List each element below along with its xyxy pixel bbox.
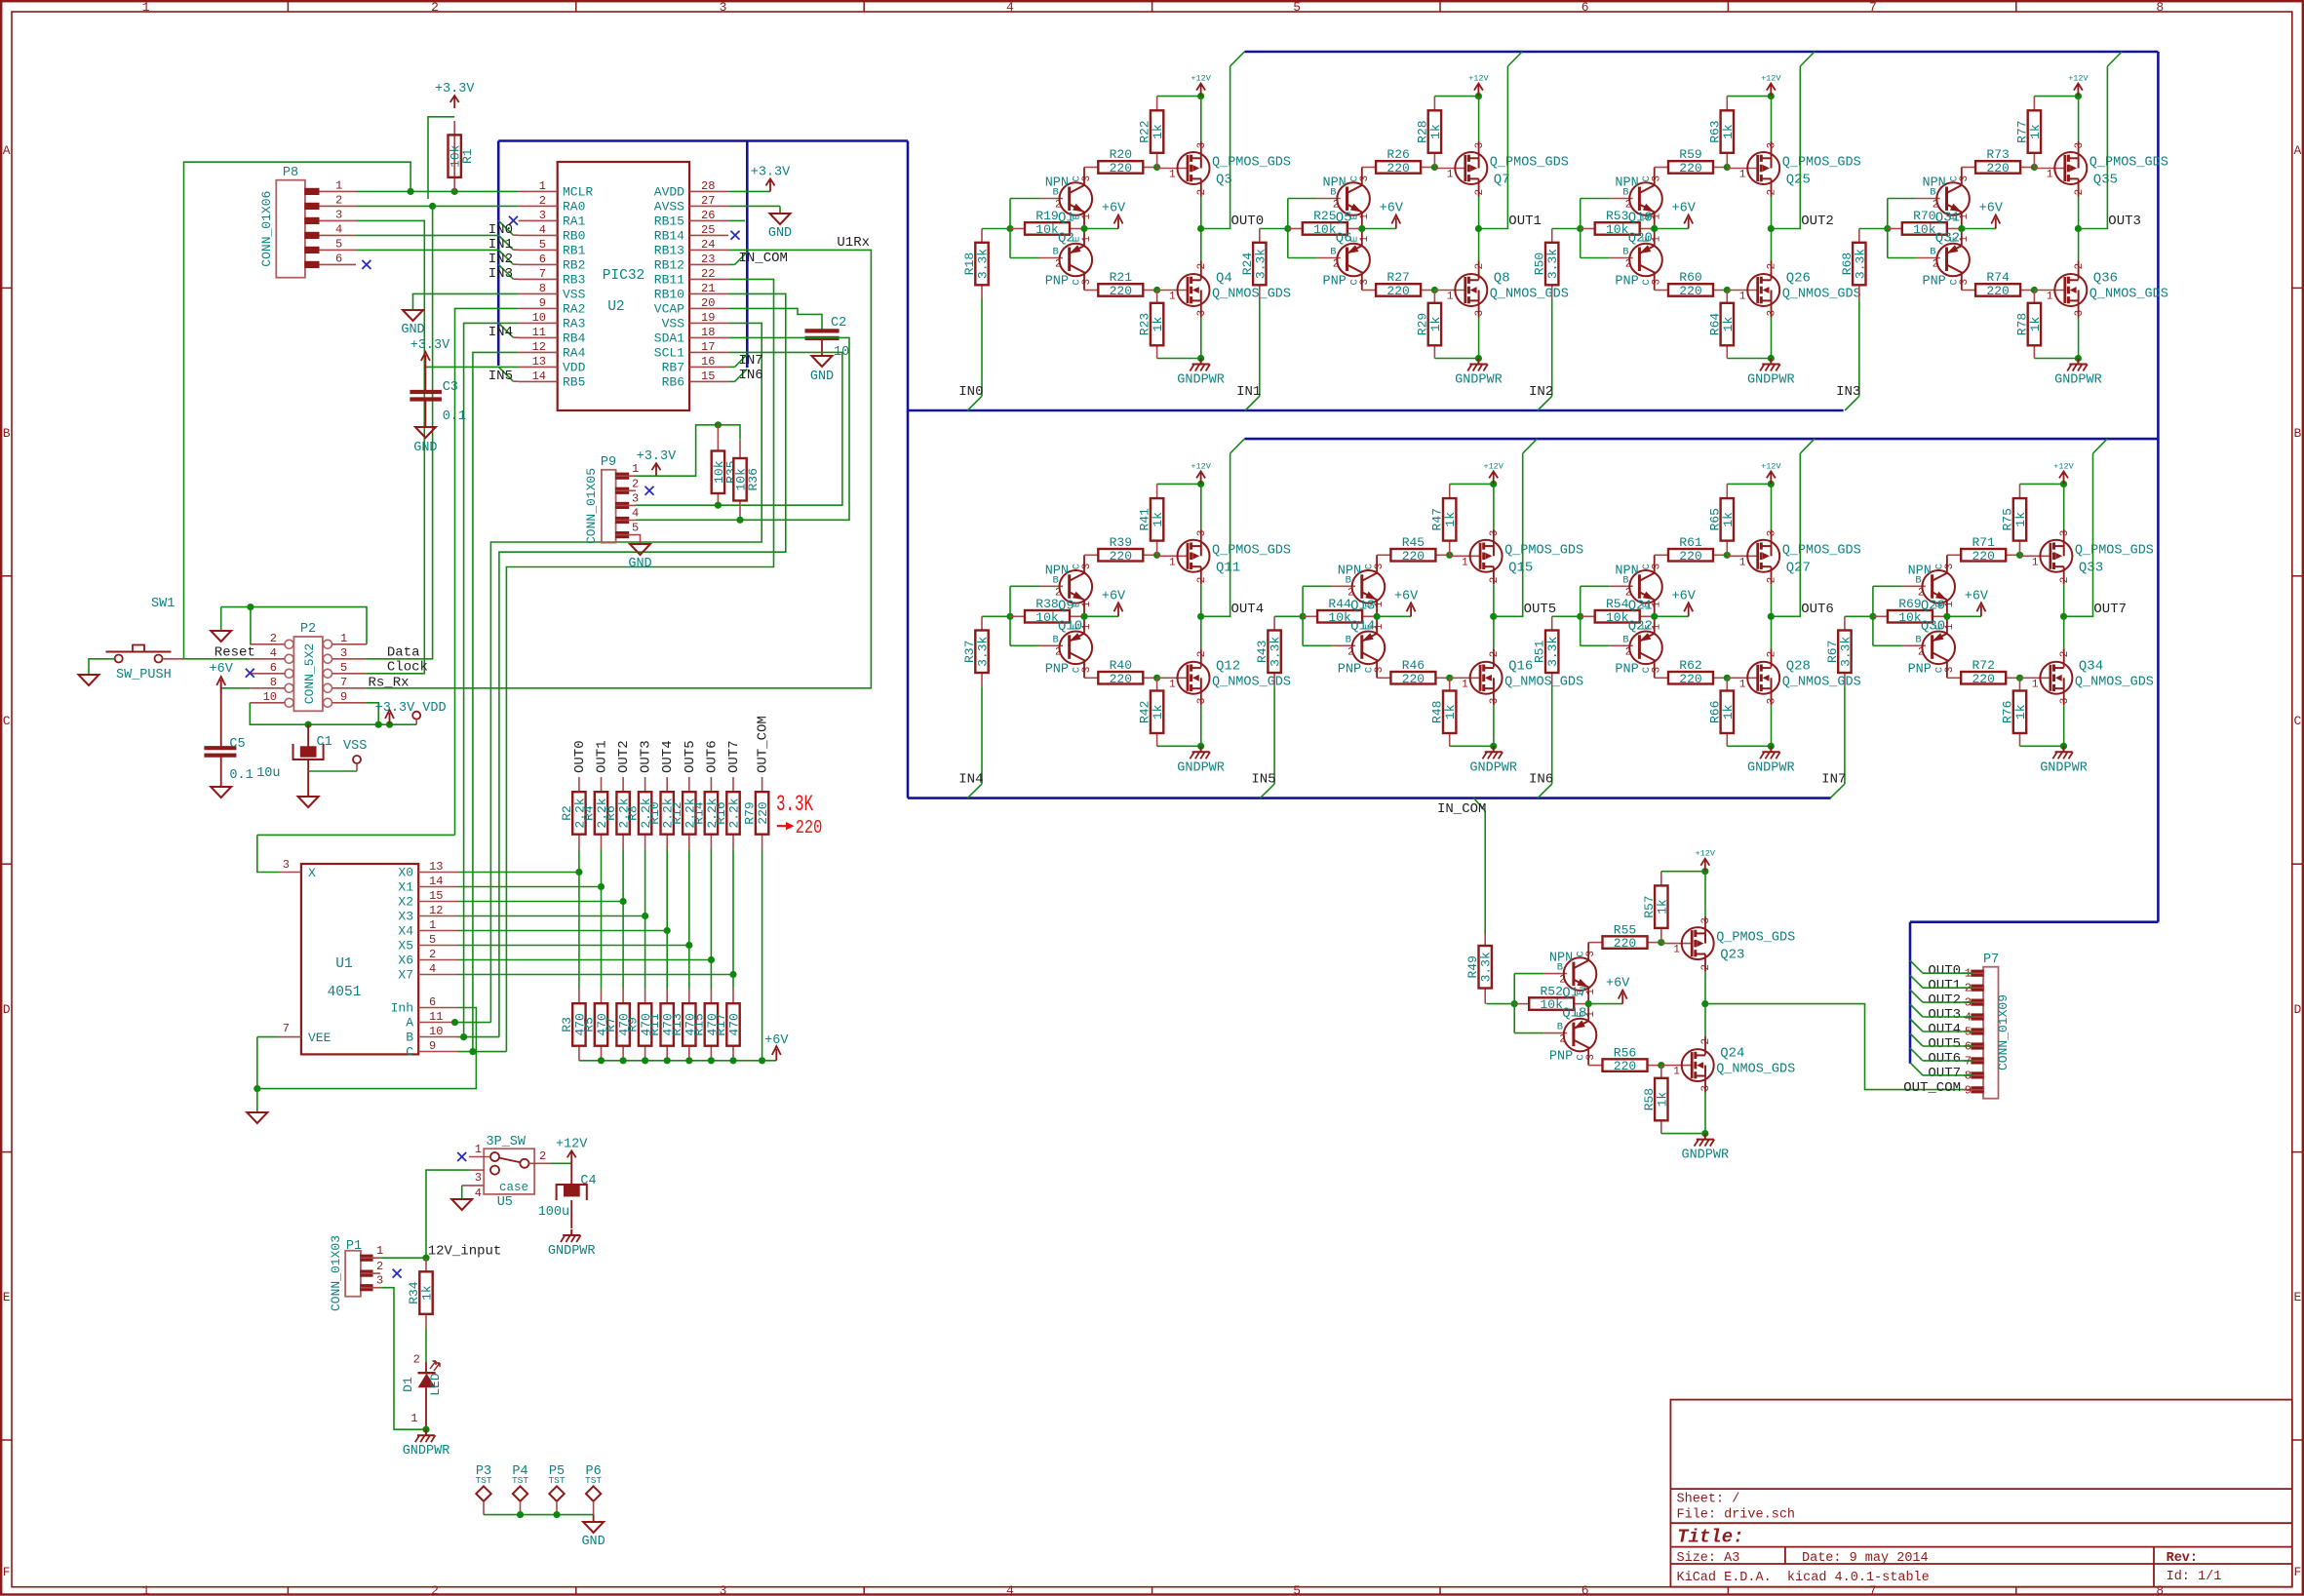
svg-text:IN2: IN2 <box>488 252 513 267</box>
svg-text:R71: R71 <box>1972 535 1995 550</box>
svg-text:Q12: Q12 <box>1216 658 1240 674</box>
junction output OUT7 <box>2060 613 2067 620</box>
svg-text:2: 2 <box>429 948 436 961</box>
svg-text:RA0: RA0 <box>563 199 585 214</box>
svg-text:Rev:: Rev: <box>2167 1551 2198 1566</box>
svg-text:PNP: PNP <box>1322 275 1346 290</box>
svg-text:VSS: VSS <box>343 739 367 754</box>
svg-text:220: 220 <box>1679 672 1701 686</box>
svg-text:2: 2 <box>1767 651 1778 658</box>
svg-text:X7: X7 <box>398 968 413 983</box>
svg-text:CONN_01X06: CONN_01X06 <box>259 191 274 267</box>
svg-text:1: 1 <box>1081 623 1093 630</box>
wire VSS pin8 to GND <box>413 293 519 309</box>
resistor R78 1k pull-down <box>2033 291 2035 303</box>
resistor R22 1k pull-up <box>1156 97 1158 111</box>
svg-text:R78: R78 <box>2014 313 2029 335</box>
svg-text:TST: TST <box>585 1475 602 1486</box>
svg-text:C1: C1 <box>317 735 332 750</box>
svg-text:X2: X2 <box>398 895 413 910</box>
svg-text:OUT6: OUT6 <box>1801 602 1834 617</box>
svg-text:R11: R11 <box>647 1013 662 1036</box>
svg-text:1: 1 <box>1739 679 1746 690</box>
wire Q6 collector to R27 <box>1361 272 1363 291</box>
svg-text:2: 2 <box>1055 646 1062 658</box>
svg-text:+12V: +12V <box>1191 461 1211 471</box>
wire Q30 collector to R72 <box>1946 659 1948 678</box>
resistor R70 10k <box>1888 228 1902 230</box>
wire +12V rail <box>1157 96 1201 97</box>
wire OUT5 riser to bus <box>1494 453 1523 616</box>
no-connect P8 pin6 <box>362 260 371 269</box>
svg-text:RB14: RB14 <box>654 228 684 243</box>
svg-text:IN4: IN4 <box>488 325 513 340</box>
connector P8 CONN_01X06 <box>276 180 305 278</box>
svg-text:3.3k: 3.3k <box>1838 637 1853 667</box>
resistor R45 220 <box>1377 554 1390 556</box>
svg-text:2: 2 <box>1055 259 1062 271</box>
svg-text:R46: R46 <box>1402 658 1425 673</box>
svg-text:Q32: Q32 <box>1935 231 1960 247</box>
svg-text:3.3k: 3.3k <box>976 249 991 279</box>
svg-text:1k: 1k <box>1721 317 1736 332</box>
P2 pin 3 <box>324 654 332 663</box>
svg-text:OUT6: OUT6 <box>1928 1051 1961 1067</box>
svg-text:1k: 1k <box>1151 124 1165 139</box>
P1 pin 2 <box>361 1270 372 1276</box>
svg-text:X6: X6 <box>398 954 413 968</box>
svg-text:Q30: Q30 <box>1921 618 1945 634</box>
svg-text:3: 3 <box>340 646 347 660</box>
svg-text:GNDPWR: GNDPWR <box>1455 373 1503 388</box>
junction D1 cathode <box>422 1426 429 1433</box>
svg-text:1: 1 <box>1652 623 1663 630</box>
mosfet Q33 Q_PMOS_GDS <box>2020 555 2050 557</box>
svg-text:+12V: +12V <box>1191 74 1211 84</box>
P8 pin 5 <box>305 249 356 251</box>
svg-text:IN1: IN1 <box>1236 384 1261 400</box>
svg-text:3: 3 <box>1700 917 1712 924</box>
connector P2 CONN_5X2 <box>293 637 323 711</box>
wire Q15 drain to output <box>1493 566 1495 584</box>
wire Q26 source to GNDPWR <box>1771 300 1773 317</box>
svg-text:R59: R59 <box>1679 147 1701 162</box>
bus IN (middle vertical x=931) <box>907 141 910 798</box>
ground GNDPWR <box>1770 746 1772 752</box>
svg-text:2: 2 <box>413 1352 420 1366</box>
svg-text:Q9: Q9 <box>1058 598 1074 613</box>
wire IN5 riser to bus <box>1273 686 1275 784</box>
svg-text:Q_PMOS_GDS: Q_PMOS_GDS <box>1504 543 1583 558</box>
svg-text:B: B <box>406 1031 413 1045</box>
wire P6 to GND <box>593 1515 595 1522</box>
svg-text:3: 3 <box>1196 698 1208 705</box>
svg-text:OUT4: OUT4 <box>1928 1022 1961 1037</box>
no-connect P1 pin2 <box>393 1269 402 1278</box>
resistor R44 10k <box>1303 615 1317 617</box>
bus entry OUT5 <box>1523 439 1538 453</box>
P7 pin 7 <box>1972 1058 1983 1064</box>
junction output OUT2 <box>1768 225 1775 232</box>
wire base drive Q19/Q20 <box>1580 199 1582 258</box>
svg-text:3: 3 <box>1196 142 1208 149</box>
resistor R23 1k pull-down <box>1156 291 1158 303</box>
svg-text:B: B <box>1053 634 1059 645</box>
junction R39/R41/Q11 gate <box>1153 552 1160 559</box>
wire Q3 source to +12V <box>1200 141 1202 158</box>
svg-text:Q_NMOS_GDS: Q_NMOS_GDS <box>2075 675 2154 689</box>
bus entry OUT0 to P7 <box>1910 960 1923 973</box>
svg-text:X: X <box>308 866 316 880</box>
svg-text:1: 1 <box>1081 236 1093 243</box>
U1 pin 15 X2 <box>418 901 457 903</box>
wire Q25 source to +12V <box>1771 141 1773 158</box>
svg-text:VEE: VEE <box>308 1031 332 1045</box>
svg-text:14: 14 <box>532 370 546 383</box>
svg-text:2: 2 <box>431 1583 439 1596</box>
svg-text:R26: R26 <box>1386 147 1409 162</box>
bus entry OUT0 <box>1230 52 1245 66</box>
svg-text:R13: R13 <box>670 1013 684 1035</box>
svg-text:PNP: PNP <box>1922 275 1945 290</box>
no-connect U5 pin1 <box>457 1152 466 1161</box>
mosfet Q16 Q_NMOS_GDS <box>1450 677 1480 679</box>
junction IN1 block input node <box>1284 225 1291 232</box>
svg-text:3: 3 <box>1652 175 1663 182</box>
svg-text:10: 10 <box>532 311 546 325</box>
svg-text:10k: 10k <box>1606 610 1629 625</box>
junction IN_COM block input node <box>1511 1000 1518 1007</box>
U2 pin 20 VCAP <box>689 307 728 309</box>
wire OUT1 riser to bus <box>1478 66 1507 229</box>
svg-text:1: 1 <box>142 0 150 15</box>
svg-text:1: 1 <box>142 1583 150 1596</box>
svg-text:220: 220 <box>1986 284 2009 298</box>
svg-text:OUT5: OUT5 <box>1524 602 1557 617</box>
no-connect P9 pin2 <box>645 487 654 495</box>
svg-text:+6V: +6V <box>1672 589 1697 603</box>
svg-text:1k: 1k <box>1655 899 1669 915</box>
U1 pin 1 X4 <box>418 930 457 932</box>
svg-text:Q_NMOS_GDS: Q_NMOS_GDS <box>1212 288 1291 302</box>
wire R6 to X2 <box>622 849 624 902</box>
svg-text:R9: R9 <box>626 1017 641 1032</box>
resistor R21 220 <box>1084 290 1098 292</box>
svg-text:Q35: Q35 <box>2093 173 2118 188</box>
resistor R55 220 <box>1588 942 1602 944</box>
svg-text:B: B <box>3 426 11 441</box>
svg-text:Q24: Q24 <box>1720 1046 1744 1062</box>
svg-text:7: 7 <box>539 267 546 281</box>
resistor R19 10k <box>1010 228 1025 230</box>
U1 pin 14 X1 <box>418 886 457 888</box>
svg-text:220: 220 <box>1614 936 1636 951</box>
wire IN2 riser to bus <box>1551 299 1553 397</box>
wire Q5 collector to R26 <box>1361 168 1363 186</box>
svg-text:1: 1 <box>632 462 639 476</box>
bus OUT to P7 horizontal <box>1910 920 2158 923</box>
svg-text:Reset: Reset <box>215 645 255 661</box>
svg-text:B: B <box>1915 574 1921 586</box>
svg-text:Q14: Q14 <box>1350 618 1375 634</box>
svg-text:1k: 1k <box>420 1285 435 1301</box>
svg-text:2: 2 <box>1625 259 1632 271</box>
test point P3 TST <box>476 1486 490 1500</box>
bus entry OUT6 <box>1800 439 1815 453</box>
svg-text:R18: R18 <box>962 253 977 275</box>
svg-text:GNDPWR: GNDPWR <box>2054 373 2102 388</box>
svg-text:1: 1 <box>2032 557 2039 568</box>
no-connect U2 pin3 RA1 <box>509 216 518 225</box>
svg-text:case: case <box>499 1181 528 1194</box>
svg-text:8: 8 <box>2156 0 2164 15</box>
svg-text:AVDD: AVDD <box>654 184 684 199</box>
svg-text:3: 3 <box>2074 310 2086 317</box>
wire RB11 to U1 C riser <box>506 279 773 1051</box>
svg-text:R36: R36 <box>746 468 761 490</box>
title block <box>1670 1400 2291 1587</box>
P2 pin 7 <box>324 683 332 692</box>
wire Q27 drain to output <box>1771 566 1773 584</box>
svg-text:B: B <box>1557 962 1563 974</box>
svg-text:IN2: IN2 <box>1529 384 1553 400</box>
resistor R47 1k pull-up <box>1449 484 1451 498</box>
svg-text:10k: 10k <box>1313 222 1337 237</box>
bus OUT right vertical <box>2157 52 2160 922</box>
svg-text:1: 1 <box>376 1244 383 1258</box>
connector P7 CONN_01X09 <box>1983 967 1999 1099</box>
svg-text:3: 3 <box>1374 667 1386 674</box>
svg-text:OUT3: OUT3 <box>2108 214 2141 229</box>
svg-text:3: 3 <box>1700 1085 1712 1092</box>
resistor R67 3.3k input <box>1845 615 1873 617</box>
wire Q8 drain to output <box>1478 261 1480 280</box>
wire GNDPWR rail <box>2020 745 2064 747</box>
svg-text:4: 4 <box>475 1187 482 1200</box>
+6V rail under arrays <box>579 1060 776 1062</box>
bus entry OUT1 to P7 <box>1910 975 1923 988</box>
svg-text:R56: R56 <box>1614 1045 1636 1060</box>
wire +12V rail <box>1727 483 1771 485</box>
bus entry IN1 to U2 pin5 <box>498 235 513 250</box>
wire IN7 riser to bus <box>1844 686 1846 784</box>
resistor R26 220 <box>1362 167 1376 169</box>
mosfet Q27 Q_PMOS_GDS <box>1727 555 1757 557</box>
svg-text:Q22: Q22 <box>1628 618 1653 634</box>
wire Q2 collector to R21 <box>1083 272 1085 291</box>
U1 pin 6 Inh <box>418 1007 457 1009</box>
U5 pin2 <box>528 1162 551 1164</box>
svg-text:PIC32: PIC32 <box>603 268 645 284</box>
wire MCLR net (P8 pin1 to U2 pin1) <box>356 190 519 192</box>
wire Q7 source to +12V <box>1478 141 1480 158</box>
svg-text:3: 3 <box>475 1171 482 1185</box>
svg-text:B: B <box>1346 634 1351 645</box>
resistor R8 2.2k <box>644 777 646 792</box>
svg-text:Q20: Q20 <box>1628 231 1653 247</box>
svg-text:3: 3 <box>283 858 290 872</box>
P9 pin 5 <box>616 532 629 538</box>
ground GNDPWR under C4 <box>570 1229 572 1235</box>
mosfet Q8 Q_NMOS_GDS <box>1434 290 1464 292</box>
wire IN_COM entry from RB12 <box>728 263 734 265</box>
svg-text:Rs_Rx: Rs_Rx <box>369 675 410 690</box>
svg-text:B: B <box>1557 1022 1563 1033</box>
svg-text:3: 3 <box>1959 175 1971 182</box>
svg-text:1: 1 <box>1374 601 1386 607</box>
svg-text:2: 2 <box>1767 189 1778 196</box>
wire IN_COM from bus to R49 <box>1474 798 1486 811</box>
wire U1 B select <box>457 1036 499 1038</box>
svg-text:3: 3 <box>1359 175 1371 182</box>
ground GND under C3 <box>415 427 436 438</box>
transistor Q29 NPN <box>1902 585 1926 587</box>
svg-text:12: 12 <box>532 340 546 354</box>
svg-text:R24: R24 <box>1240 253 1255 276</box>
svg-text:IN5: IN5 <box>488 369 513 384</box>
svg-text:28: 28 <box>701 179 715 193</box>
svg-text:220: 220 <box>1110 284 1132 298</box>
svg-text:1: 1 <box>1359 214 1371 220</box>
svg-text:P7: P7 <box>1983 953 1999 967</box>
svg-text:22: 22 <box>701 267 715 281</box>
svg-text:Size: A3: Size: A3 <box>1677 1551 1740 1566</box>
svg-text:GND: GND <box>810 370 834 384</box>
transistor Q6 PNP <box>1317 257 1341 259</box>
wire Q14 collector to R46 <box>1376 659 1378 678</box>
resistor R42 1k pull-down <box>1156 678 1158 690</box>
svg-text:21: 21 <box>701 282 715 295</box>
svg-text:C4: C4 <box>580 1174 596 1188</box>
ground GND at test points <box>583 1522 604 1533</box>
svg-text:1: 1 <box>1081 214 1093 220</box>
svg-text:Q11: Q11 <box>1216 560 1240 575</box>
wire Q22 collector to R62 <box>1654 659 1656 678</box>
svg-text:19: 19 <box>701 311 715 325</box>
transistor Q18 PNP <box>1543 1032 1567 1034</box>
ground GNDPWR <box>1200 359 1202 365</box>
svg-text:R65: R65 <box>1707 508 1722 530</box>
U2 pin 26 RB15 <box>689 219 728 221</box>
svg-text:R2: R2 <box>560 805 574 821</box>
mosfet Q11 Q_PMOS_GDS <box>1157 555 1188 557</box>
svg-text:RB10: RB10 <box>654 287 684 301</box>
power +3.3V at R1 <box>453 97 455 108</box>
svg-text:Q18: Q18 <box>1562 1006 1586 1022</box>
resistor R35 10k <box>717 439 719 450</box>
svg-text:1: 1 <box>1462 557 1468 568</box>
svg-text:E: E <box>2293 1290 2301 1304</box>
svg-text:3: 3 <box>376 1274 383 1288</box>
U2 pin 14 RB5 <box>519 380 558 382</box>
wire Q29 collector to R71 <box>1946 555 1948 573</box>
transistor Q31 NPN <box>1917 198 1940 200</box>
svg-text:PNP: PNP <box>1908 662 1932 677</box>
bus entry OUT4 to P7 <box>1910 1019 1923 1032</box>
svg-text:A: A <box>2293 143 2301 158</box>
resistor R72 220 <box>1947 677 1961 679</box>
U2 pin 18 SDA1 <box>689 336 728 338</box>
svg-text:6: 6 <box>539 253 546 266</box>
svg-text:2: 2 <box>376 1260 383 1273</box>
wire RA2 to U1 X input <box>455 308 519 835</box>
U2 pin 3 RA1 <box>519 219 558 221</box>
wire RA0 Data net <box>356 205 519 207</box>
wire emitters to +6V <box>1654 600 1656 633</box>
U1 pin 2 X6 <box>418 959 457 961</box>
wire emitters to +6V <box>1083 213 1085 246</box>
ground GNDPWR <box>1200 746 1202 752</box>
U5 pin1 <box>469 1156 490 1158</box>
P7 pin 1 <box>1972 970 1983 976</box>
svg-text:R63: R63 <box>1707 120 1722 142</box>
svg-text:R5: R5 <box>582 1017 597 1032</box>
svg-text:220: 220 <box>1679 161 1701 175</box>
svg-text:R77: R77 <box>2014 120 2029 142</box>
svg-text:1k: 1k <box>1151 317 1165 332</box>
svg-text:15: 15 <box>429 889 443 903</box>
power +12V <box>1770 472 1772 484</box>
svg-text:8: 8 <box>2156 1583 2164 1596</box>
bus entry OUT2 to P7 <box>1910 990 1923 1002</box>
U5 pin4 <box>462 1185 485 1187</box>
resistor R15 470 <box>710 989 712 1003</box>
svg-text:10k: 10k <box>1035 222 1059 237</box>
svg-text:2: 2 <box>1933 259 1939 271</box>
wire SW1 left to GND <box>89 659 115 674</box>
wire P2 pin9 drop <box>367 703 378 724</box>
U1 pin 11 A <box>418 1022 457 1024</box>
svg-text:220: 220 <box>1110 161 1132 175</box>
svg-text:R68: R68 <box>1840 253 1855 275</box>
svg-text:10k: 10k <box>1898 610 1922 625</box>
resistor R24 3.3k input <box>1260 228 1288 230</box>
svg-text:1: 1 <box>335 178 342 192</box>
svg-text:RB2: RB2 <box>563 257 585 272</box>
svg-text:3: 3 <box>1489 530 1501 537</box>
wire OUT3 riser to bus <box>2078 66 2107 229</box>
svg-text:1: 1 <box>1462 679 1468 690</box>
U1 pin 7 VEE <box>278 1036 301 1038</box>
junction IN7 block input node <box>1869 613 1876 620</box>
svg-text:13: 13 <box>429 860 443 874</box>
resistor R29 1k pull-down <box>1433 291 1435 303</box>
svg-text:CONN_01X09: CONN_01X09 <box>1996 994 2011 1070</box>
svg-text:RB12: RB12 <box>654 257 684 272</box>
svg-text:Q26: Q26 <box>1786 271 1811 287</box>
junction R21/R23/Q4 gate <box>1153 287 1160 293</box>
svg-text:1k: 1k <box>2028 317 2043 332</box>
wire X2 junction <box>620 898 627 905</box>
bus entry OUT6 to P7 <box>1910 1048 1923 1061</box>
wire R2 to X0 <box>578 849 580 873</box>
svg-text:2: 2 <box>1474 263 1486 270</box>
P7 pin 8 <box>1972 1072 1983 1078</box>
svg-text:1: 1 <box>1447 170 1454 181</box>
svg-text:R45: R45 <box>1402 535 1425 550</box>
bus entry IN0 <box>967 396 982 410</box>
U2 pin 5 RB1 <box>519 249 558 251</box>
P2 pin 6 <box>285 669 293 678</box>
wire Q12 drain to output <box>1200 648 1202 667</box>
svg-text:3: 3 <box>1767 698 1778 705</box>
resistor R58 1k pull-down <box>1660 1066 1662 1078</box>
svg-text:Q_PMOS_GDS: Q_PMOS_GDS <box>2089 156 2168 171</box>
mosfet Q34 Q_NMOS_GDS <box>2020 677 2050 679</box>
annotation arrow 220 red <box>777 825 788 827</box>
wire Q24 drain to output <box>1704 1036 1706 1055</box>
bus entry IN4 to U2 pin11 <box>498 323 513 337</box>
